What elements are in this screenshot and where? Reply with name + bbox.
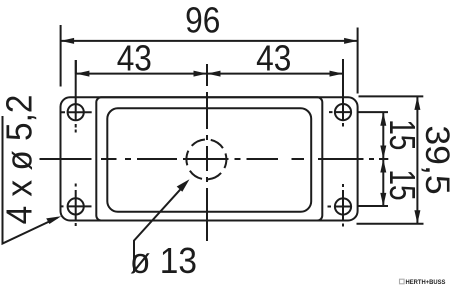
hole bottom-right centerlines (328, 184, 389, 227)
dimension 43 left: extension (76, 60, 207, 74)
plate outer outline (61, 97, 358, 220)
hole top-left (68, 104, 84, 120)
hole top-right centerlines (329, 59, 388, 127)
dimension 43 right: line (207, 73, 343, 75)
label 4 x ø 5,2 leader (3, 116, 58, 244)
hole bottom-right (335, 198, 351, 214)
watermark logo mark (400, 279, 405, 284)
recess rounded rectangle (107, 108, 311, 212)
dimension 96: arrows (61, 38, 358, 44)
label ø 13 leader (134, 183, 186, 273)
dimension 96: line (61, 40, 358, 42)
svg-text:96: 96 (185, 1, 220, 41)
hole top-left centerlines (62, 60, 92, 133)
horizontal centerline (full width, long-short dashes) (40, 158, 389, 160)
dimension 43 right: arrows (207, 71, 343, 77)
svg-text:4 x ø 5,2: 4 x ø 5,2 (0, 95, 39, 225)
svg-text:ø 13: ø 13 (130, 242, 197, 281)
dimension 43 left: arrows (76, 71, 207, 77)
svg-text:15: 15 (382, 119, 422, 150)
hole bottom-left centerlines (60, 184, 92, 227)
svg-text:HERTH+BUSS: HERTH+BUSS (406, 279, 446, 286)
dimension 96: extension lines (61, 25, 358, 94)
dimension 15 top: line (382, 112, 384, 206)
raised section side walls (96, 97, 322, 220)
dimension 43 left: line (76, 73, 207, 75)
svg-text:43: 43 (256, 39, 291, 79)
vertical centerline (center of part) (206, 64, 208, 241)
label ø 13 leader arrowhead (177, 179, 190, 192)
hole bottom-left (68, 198, 84, 214)
svg-text:15: 15 (382, 169, 422, 200)
central circle (dashed, Ø13) (186, 139, 226, 179)
dimension 39,5: extension lines (357, 96, 424, 223)
label 4 x ø 5,2 leader arrowhead (46, 216, 61, 224)
dimension 39,5: arrows (414, 96, 420, 223)
dimension 15 top: arrows (380, 112, 386, 159)
hole top-right (335, 104, 351, 120)
dimension 15 bottom: arrows (380, 159, 386, 206)
svg-text:43: 43 (117, 39, 152, 79)
dimension 39,5: line (416, 96, 418, 223)
